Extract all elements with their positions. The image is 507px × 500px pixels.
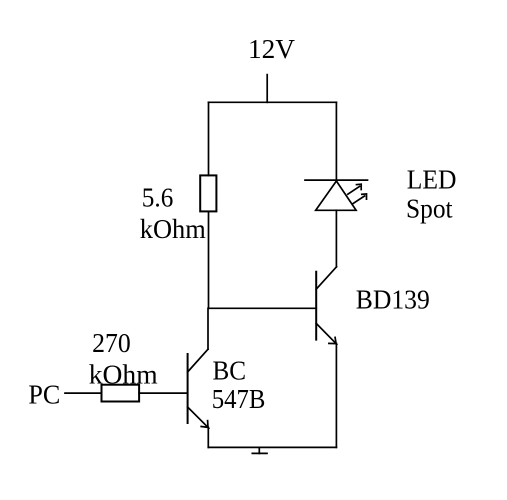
resistor R1 5.6 kOhm bbox=[200, 175, 216, 211]
svg-text:kOhm: kOhm bbox=[89, 360, 158, 390]
LED D1 cathode bar bbox=[305, 179, 368, 181]
wire bottom rail bbox=[208, 446, 336, 448]
transistor Q2 emitter lead with arrow bbox=[316, 323, 337, 344]
wire mid rail to BD139 base bbox=[209, 307, 317, 309]
svg-text:kOhm: kOhm bbox=[140, 214, 206, 244]
svg-text:BD139: BD139 bbox=[356, 285, 430, 315]
wire BC547B collector up to mid rail bbox=[207, 308, 209, 349]
transistor Q1 BC547B base bar bbox=[187, 354, 189, 423]
wire BD139 emitter down bbox=[335, 344, 337, 448]
svg-text:Spot: Spot bbox=[406, 193, 453, 223]
svg-text:5.6: 5.6 bbox=[142, 183, 174, 213]
wire top rail bbox=[209, 101, 337, 103]
wire right branch upper bbox=[335, 102, 337, 180]
svg-text:PC: PC bbox=[28, 380, 60, 410]
wire BC547B emitter down bbox=[207, 427, 209, 447]
svg-text:BC: BC bbox=[213, 355, 247, 385]
wire PC input bbox=[65, 392, 102, 394]
wire LED to BD139 collector bbox=[335, 210, 337, 266]
transistor Q2 BD139 base bar bbox=[315, 272, 317, 340]
transistor Q1 collector lead bbox=[188, 349, 208, 372]
ground stub bbox=[258, 447, 260, 453]
node 12V supply stub bbox=[266, 75, 268, 103]
svg-text:12V: 12V bbox=[248, 34, 296, 64]
transistor Q1 emitter lead with arrow bbox=[188, 407, 209, 428]
svg-text:LED: LED bbox=[407, 164, 457, 194]
LED light arrow 1 bbox=[348, 184, 361, 194]
svg-text:547B: 547B bbox=[212, 384, 266, 414]
wire left branch lower bbox=[208, 211, 210, 308]
LED D1 triangle bbox=[316, 181, 356, 210]
wire R2 to BC547B base bbox=[139, 392, 188, 394]
resistor R2 270 kOhm bbox=[102, 385, 140, 402]
ground bar bbox=[252, 452, 267, 454]
wire left branch upper bbox=[208, 102, 210, 175]
transistor Q2 collector lead bbox=[316, 267, 336, 289]
svg-text:270: 270 bbox=[92, 328, 131, 358]
LED light arrow 2 bbox=[352, 194, 366, 204]
